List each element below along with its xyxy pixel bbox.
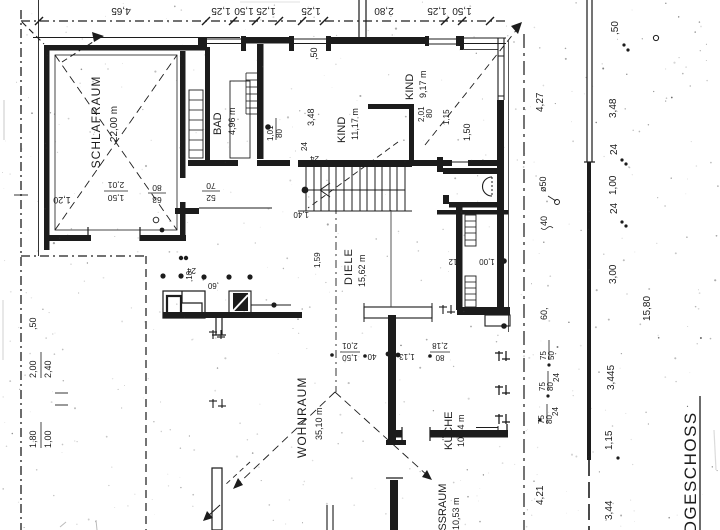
terrace arrow (207, 505, 220, 517)
svg-text:1,50: 1,50 (107, 193, 124, 203)
kueche/essraum divider wall (430, 430, 508, 438)
svg-text:35,10 m: 35,10 m (314, 407, 324, 440)
section dash-dot line vertical (523, 34, 525, 530)
schlafraum east wall (180, 51, 186, 178)
top dimension labels (rotated 180) (111, 5, 472, 16)
svg-text:80: 80 (425, 109, 434, 118)
svg-text:60,: 60, (539, 307, 549, 320)
svg-text:24: 24 (609, 143, 620, 155)
svg-text:1,80: 1,80 (28, 430, 38, 448)
bottom centre marks (326, 505, 328, 530)
pantry west wall (456, 203, 463, 310)
kueche west wall (shared with wohnraum) (388, 315, 396, 442)
schlafraum inner plaster line (55, 55, 177, 230)
kind divider wall nook (368, 104, 414, 109)
svg-text:3,48: 3,48 (608, 98, 619, 118)
bad east wall (257, 44, 264, 159)
kueche label (443, 411, 466, 450)
svg-text:50: 50 (547, 351, 556, 360)
pantry ladder 1 (465, 215, 476, 246)
svg-text:ø50: ø50 (538, 176, 548, 192)
svg-text:1,50: 1,50 (452, 5, 472, 16)
chimney base wall (163, 312, 302, 318)
kind west label (336, 108, 360, 143)
title underline (699, 396, 701, 530)
schlafraum roof diagonal 1 (55, 55, 177, 230)
terrace diagonal dash (225, 462, 250, 485)
thin line continuing right (251, 304, 291, 306)
kueche east face line (497, 426, 499, 431)
horizontal dash-dot boundary left of wohnraum (21, 255, 147, 257)
svg-text:70: 70 (206, 181, 216, 191)
wc west wall jogs (440, 161, 498, 163)
svg-text:KIND: KIND (404, 74, 416, 100)
svg-text:WOHNRAUM: WOHNRAUM (295, 377, 309, 458)
junction dots row (160, 273, 165, 278)
east wall wc segment (497, 166, 504, 310)
chimney flue inner rect (167, 296, 181, 314)
schlafraum south wall segment A (44, 235, 91, 241)
window kind west (294, 38, 330, 40)
bad label (212, 107, 237, 135)
title ERDGESCHOSS (681, 411, 700, 530)
essraum west wall lower (390, 480, 398, 530)
kueche interior dims (342, 341, 448, 362)
kind east south wall (412, 160, 452, 166)
chimney block outline left (163, 291, 205, 318)
north wall right segment (window band) (460, 37, 506, 39)
svg-text:1,00: 1,00 (479, 257, 495, 266)
fraction labels near bad east wall (266, 125, 284, 141)
kind east label (404, 70, 428, 100)
small labels near dots (185, 266, 219, 290)
fractions 75/80 diagonal group (537, 351, 561, 424)
svg-text:ERDGESCHOSS: ERDGESCHOSS (681, 411, 700, 530)
vertical dashed terrace line (145, 256, 147, 530)
svg-text:2,00: 2,00 (28, 360, 38, 378)
svg-text:11,17 m: 11,17 m (350, 108, 360, 140)
svg-text:BAD: BAD (212, 112, 224, 135)
diele east thin line (390, 210, 392, 307)
svg-text:1,50: 1,50 (234, 5, 254, 16)
long vertical wall dashed lower (588, 460, 590, 530)
top dimension ticks (35, 17, 494, 25)
diele label (313, 248, 367, 287)
stair bottom rail (298, 210, 412, 212)
diele axis dashed (335, 206, 337, 392)
svg-text:3,445: 3,445 (606, 365, 617, 390)
top reference dash-dot line (21, 20, 505, 22)
long vertical wall double upper (586, 0, 588, 162)
closet bottom wall (175, 208, 199, 214)
svg-text:1,20: 1,20 (53, 195, 71, 205)
svg-text:,50: ,50 (610, 21, 621, 35)
svg-text:2,01: 2,01 (342, 341, 358, 350)
top piers to edge (358, 0, 360, 38)
stubs below chimney wall (212, 318, 226, 335)
wohnraum label (295, 377, 324, 458)
svg-text:4,96 m: 4,96 m (227, 107, 237, 135)
dim 4,21 (535, 485, 546, 505)
svg-text:4,21: 4,21 (535, 485, 546, 505)
svg-text:40: 40 (367, 352, 376, 361)
svg-text:24: 24 (300, 142, 309, 151)
kueche east radiator symbols (495, 351, 510, 431)
kind east roof diagonal (425, 28, 518, 145)
svg-text:1,50: 1,50 (462, 123, 472, 141)
svg-text:,60: ,60 (207, 281, 219, 290)
diele south outline band (364, 307, 432, 318)
east wall upper segments (497, 38, 499, 100)
right dimension chain (604, 21, 653, 520)
svg-text:3,48: 3,48 (306, 108, 316, 126)
svg-text:1,00: 1,00 (608, 175, 619, 195)
svg-text:1,59: 1,59 (313, 252, 322, 268)
svg-text:12: 12 (448, 257, 457, 266)
svg-text:10,53 m: 10,53 m (451, 497, 461, 530)
kind west room: interior dim 3,48 (293, 108, 316, 219)
svg-text:1,25: 1,25 (256, 5, 276, 16)
wohnraum roof diagonals (238, 392, 335, 484)
terrace wall bottom left (212, 468, 222, 530)
left border dash-dot line (20, 10, 22, 530)
pantry ladder 2 (465, 276, 476, 307)
svg-text:4,27: 4,27 (535, 92, 546, 112)
svg-text:DIELE: DIELE (343, 248, 355, 285)
closet shelf hatch between schlafraum and bad (189, 90, 203, 158)
svg-text:22,00 m: 22,00 m (109, 106, 120, 142)
interior dim 4,27 (535, 92, 549, 320)
svg-text:,50: ,50 (28, 317, 38, 330)
left side window dims (28, 317, 53, 448)
stair direction line with start dot (302, 187, 309, 194)
svg-text:9,17 m: 9,17 m (418, 70, 428, 98)
wc bowl arc (483, 177, 493, 196)
svg-text:24: 24 (551, 407, 560, 416)
interior dim fractions above kueche-block (107, 180, 215, 205)
svg-text:4,65: 4,65 (111, 5, 131, 16)
svg-text:63: 63 (152, 195, 162, 205)
stair top wall (298, 160, 412, 167)
north wall segment over corridor (241, 37, 294, 44)
corner diagonal section arrow (22, 22, 44, 44)
svg-text:1,15: 1,15 (604, 430, 615, 450)
svg-text:,50: ,50 (309, 47, 319, 60)
svg-text:2,80: 2,80 (374, 5, 394, 16)
schlafraum label (53, 76, 120, 205)
svg-text:15,62 m: 15,62 m (357, 254, 367, 287)
svg-text:2,18: 2,18 (432, 341, 448, 350)
interior dim line (199, 207, 272, 209)
svg-text:3,00: 3,00 (608, 264, 619, 284)
kueche radiator marks (439, 305, 455, 314)
long vertical wall thick middle (587, 162, 591, 460)
svg-text:24: 24 (310, 154, 319, 163)
svg-text:1,25: 1,25 (427, 5, 447, 16)
stair treads (306, 167, 405, 211)
window over bad (207, 38, 241, 40)
north wall mid segment (330, 37, 425, 44)
stair diagonal dash (308, 142, 398, 208)
svg-text:,10: ,10 (185, 270, 194, 282)
schlafraum north wall (49, 45, 207, 51)
left border ticks (14, 194, 28, 196)
stair label 24 (310, 154, 319, 163)
label 50 near pier (309, 47, 319, 60)
chain separator dots (622, 43, 625, 46)
svg-text:1,25: 1,25 (211, 5, 231, 16)
schlafraum west wall (44, 45, 50, 250)
svg-text:2,01: 2,01 (107, 180, 124, 190)
svg-text:15,80: 15,80 (642, 296, 653, 321)
svg-text:2,40: 2,40 (43, 360, 53, 378)
wc south wall (449, 202, 504, 208)
svg-text:40: 40 (539, 216, 549, 226)
north wall window right (425, 38, 460, 40)
svg-text:1,00: 1,00 (43, 430, 53, 448)
essraum label (437, 484, 461, 530)
chimney niche (182, 291, 202, 312)
svg-text:80: 80 (152, 183, 162, 193)
svg-text:1,50: 1,50 (342, 353, 358, 362)
corridor small dims (417, 106, 472, 141)
radiator symbols floating (209, 330, 226, 408)
bad west wall (205, 47, 210, 160)
bad tub (230, 81, 250, 158)
bad south wall (188, 160, 238, 166)
svg-text:24: 24 (552, 373, 561, 382)
svg-text:1,25: 1,25 (301, 5, 321, 16)
svg-text:80: 80 (435, 353, 444, 362)
schlafraum NE cap (198, 37, 207, 50)
kueche north wall (457, 307, 510, 315)
svg-text:1,15: 1,15 (442, 109, 451, 125)
schlafraum south wall segment B (140, 235, 186, 241)
svg-text:KIND: KIND (336, 117, 348, 143)
schlafraum roof diagonal 2 (55, 55, 177, 230)
heater black square (229, 291, 251, 314)
svg-text:SCHLAFRAUM: SCHLAFRAUM (89, 76, 103, 169)
svg-text:52: 52 (206, 193, 216, 203)
svg-text:ESSRAUM: ESSRAUM (437, 484, 449, 530)
svg-text:1,13: 1,13 (399, 352, 415, 361)
svg-text:24: 24 (609, 202, 620, 214)
pantry dims (448, 257, 495, 266)
closet shelf east of bad (246, 73, 257, 114)
